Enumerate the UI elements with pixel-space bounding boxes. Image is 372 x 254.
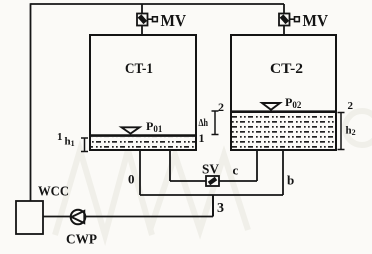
svg-text:CT-2: CT-2 <box>270 61 303 77</box>
water fill tank CT-1 <box>91 138 195 149</box>
wire: left supply down-comer to WCC <box>30 3 32 201</box>
wire: MV1 outlet stub <box>141 26 143 36</box>
level marker triangle CT-2 <box>262 103 280 110</box>
water surface line tank CT-2 <box>232 110 335 113</box>
wire: MV2 outlet stub <box>283 26 285 36</box>
pipe: pump suction/discharge line <box>43 216 213 218</box>
wire: MV2 inlet stub <box>283 4 285 14</box>
pipe: CT-1 left outlet (node 0 branch) <box>139 150 141 195</box>
svg-text:0: 0 <box>128 172 135 187</box>
water fill tank CT-2 <box>232 114 335 149</box>
svg-text:MV: MV <box>303 11 329 30</box>
svg-text:P01: P01 <box>146 119 163 134</box>
wire: top supply line <box>31 3 285 5</box>
svg-text:CT-1: CT-1 <box>125 61 153 77</box>
valve MV1 <box>137 14 157 26</box>
valve MV2 <box>279 14 299 26</box>
svg-text:MV: MV <box>161 11 187 30</box>
dimension delta-h (between tanks) <box>212 111 219 135</box>
pump CWP <box>71 210 86 225</box>
svg-text:h1: h1 <box>65 136 75 149</box>
svg-text:b: b <box>287 173 294 188</box>
pipe: CT-2 right outlet (node b branch) <box>282 150 284 195</box>
level marker triangle CT-1 <box>122 127 140 133</box>
svg-text:2: 2 <box>348 100 354 112</box>
pipe: CT-2 left inlet from SV branch <box>256 150 258 181</box>
tank CT-2 <box>231 35 336 150</box>
svg-text:Δh: Δh <box>199 117 209 129</box>
svg-text:WCC: WCC <box>38 185 69 200</box>
svg-text:2: 2 <box>218 100 224 114</box>
svg-text:P02: P02 <box>285 95 302 110</box>
pipe: CT-1 right outlet to SV branch <box>169 150 171 181</box>
dimension h1 (left of CT-1) <box>81 138 88 152</box>
svg-text:1: 1 <box>199 131 205 145</box>
valve SV <box>206 176 219 186</box>
tank CT-1 <box>90 35 196 150</box>
svg-text:c: c <box>233 162 239 177</box>
wire: MV1 inlet stub <box>141 4 143 14</box>
water surface line tank CT-1 <box>91 134 195 137</box>
pipe: SV cross branch <box>170 180 257 182</box>
svg-text:1: 1 <box>57 131 63 143</box>
svg-text:CWP: CWP <box>66 233 97 248</box>
dimension h2 (right of CT-2) <box>338 113 345 150</box>
svg-text:3: 3 <box>217 201 224 216</box>
svg-text:SV: SV <box>202 163 219 178</box>
watermark <box>55 111 372 235</box>
tank WCC <box>16 201 43 234</box>
svg-text:h2: h2 <box>346 125 356 138</box>
pipe: riser from pump line to manifold (node 3) <box>212 195 214 217</box>
pipe: bottom manifold <box>140 194 283 196</box>
